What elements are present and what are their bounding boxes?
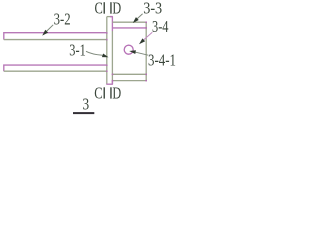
bar lower prong bottom edge bbox=[4, 70, 107, 72]
bracket 3-3 box top edge bbox=[112, 21, 146, 23]
bracket 3-3 box right edge bbox=[145, 22, 147, 80]
leader 3-1 bbox=[86, 51, 103, 55]
svg-text:3-2: 3-2 bbox=[54, 10, 71, 29]
section line C top tick bbox=[104, 2, 106, 14]
svg-text:C: C bbox=[95, 0, 103, 17]
svg-text:3-3: 3-3 bbox=[143, 0, 162, 17]
leader 3-3 bbox=[137, 14, 142, 19]
arrowhead 3-3 bbox=[133, 17, 139, 23]
bracket 3-3 box bottom edge bbox=[112, 80, 146, 82]
bar lower prong outline magenta bbox=[4, 65, 107, 71]
arrowhead 3-4-1 bbox=[129, 50, 136, 54]
plate 3-1 edge view left vertical bbox=[106, 17, 108, 85]
arrowhead 3-1 bbox=[102, 54, 109, 58]
section line C bottom tick bbox=[104, 87, 106, 98]
svg-text:C: C bbox=[94, 84, 102, 103]
svg-text:3-1: 3-1 bbox=[69, 41, 86, 60]
plate 3-1 right vertical magenta upper part bbox=[111, 17, 113, 31]
bar 3-2 upper prong bottom edge bbox=[4, 39, 107, 41]
bar 3-2 upper prong outline magenta bbox=[4, 33, 107, 40]
bracket 3-3 box inner top flange line magenta bbox=[112, 27, 146, 29]
arrowhead 3-2 bbox=[42, 30, 48, 36]
plate 3-1 top cap magenta part bbox=[110, 16, 113, 18]
hole 3-4-1 circle magenta bbox=[124, 45, 133, 54]
plate 3-1 top cap bbox=[107, 16, 113, 18]
svg-text:3-4: 3-4 bbox=[152, 17, 169, 36]
svg-text:3: 3 bbox=[82, 95, 89, 114]
plate 3-1 right vertical magenta lower bit bbox=[111, 81, 113, 85]
junction dots magenta bbox=[106, 22, 147, 82]
arrowhead 3-4 bbox=[139, 38, 145, 44]
figure number underline bbox=[73, 112, 94, 114]
svg-text:D: D bbox=[112, 84, 121, 103]
plate 3-1 edge view right vertical bbox=[111, 31, 113, 84]
bracket 3-3 box inner bottom flange line bbox=[112, 73, 146, 75]
svg-text:3-4-1: 3-4-1 bbox=[148, 50, 176, 69]
section line D bottom tick bbox=[110, 87, 112, 98]
plate 3-1 bottom cap magenta bbox=[106, 83, 113, 85]
leader 3-4 pink bbox=[144, 32, 153, 40]
leader 3-4-1 bbox=[136, 52, 149, 55]
section line D top tick bbox=[110, 2, 112, 14]
svg-text:D: D bbox=[112, 0, 121, 17]
leader 3-2 bbox=[47, 25, 54, 31]
